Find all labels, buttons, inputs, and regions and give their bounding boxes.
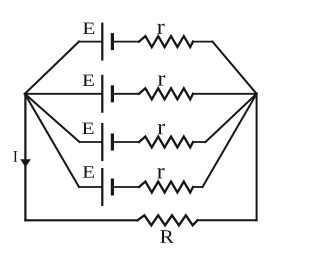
wire branch3 left horizontal xyxy=(80,141,102,143)
label r3 xyxy=(158,124,165,134)
wire branch3 right horizontal xyxy=(193,141,206,143)
label E3 xyxy=(82,123,93,134)
battery E4 short plate xyxy=(111,180,114,194)
label R xyxy=(160,230,174,243)
node A (left junction) xyxy=(24,93,26,95)
wire branch1 right horizontal xyxy=(193,41,213,43)
battery E1 long plate xyxy=(101,24,103,60)
resistor r3 xyxy=(139,137,193,148)
node B (right junction) xyxy=(255,93,257,95)
wire branch1 right diagonal xyxy=(213,42,257,94)
wire right vertical xyxy=(256,94,258,221)
label E2 xyxy=(83,75,94,86)
wire bottom right horizontal xyxy=(198,219,257,221)
wire battery3 to resistor r3 xyxy=(114,141,139,143)
battery E2 long plate xyxy=(101,76,103,112)
wire branch2 right horizontal xyxy=(193,93,257,95)
label E4 xyxy=(83,166,94,177)
wire branch4 right horizontal xyxy=(193,186,203,188)
battery E3 long plate xyxy=(101,124,103,160)
wire branch4 left horizontal xyxy=(79,186,101,188)
battery E4 long plate xyxy=(101,169,103,205)
wire branch4 right diagonal xyxy=(203,94,257,187)
wire bottom left horizontal xyxy=(25,219,137,221)
wire battery4 to resistor r4 xyxy=(114,186,139,188)
resistor r4 xyxy=(139,182,193,193)
battery E3 short plate xyxy=(111,135,114,149)
wire left vertical xyxy=(24,94,26,221)
battery E1 short plate xyxy=(111,35,114,49)
label E1 xyxy=(83,23,94,34)
wire branch3 left diagonal xyxy=(25,94,80,142)
current arrow I xyxy=(20,159,31,167)
resistor R xyxy=(138,215,198,225)
wire battery1 to resistor r1 xyxy=(114,41,139,43)
label r4 xyxy=(157,168,164,178)
battery E2 short plate xyxy=(111,87,114,101)
wire branch1 left diagonal xyxy=(25,42,79,94)
wire battery2 to resistor r2 xyxy=(114,93,139,95)
wire branch3 right diagonal xyxy=(206,94,257,142)
resistor r1 xyxy=(139,36,193,47)
label I xyxy=(13,151,17,162)
wire branch1 left horizontal xyxy=(79,41,101,43)
resistor r2 xyxy=(139,88,193,99)
label r1 xyxy=(157,24,164,34)
label r2 xyxy=(158,75,165,85)
wire branch2 left horizontal xyxy=(25,93,102,95)
wire branch4 left diagonal xyxy=(25,94,79,187)
